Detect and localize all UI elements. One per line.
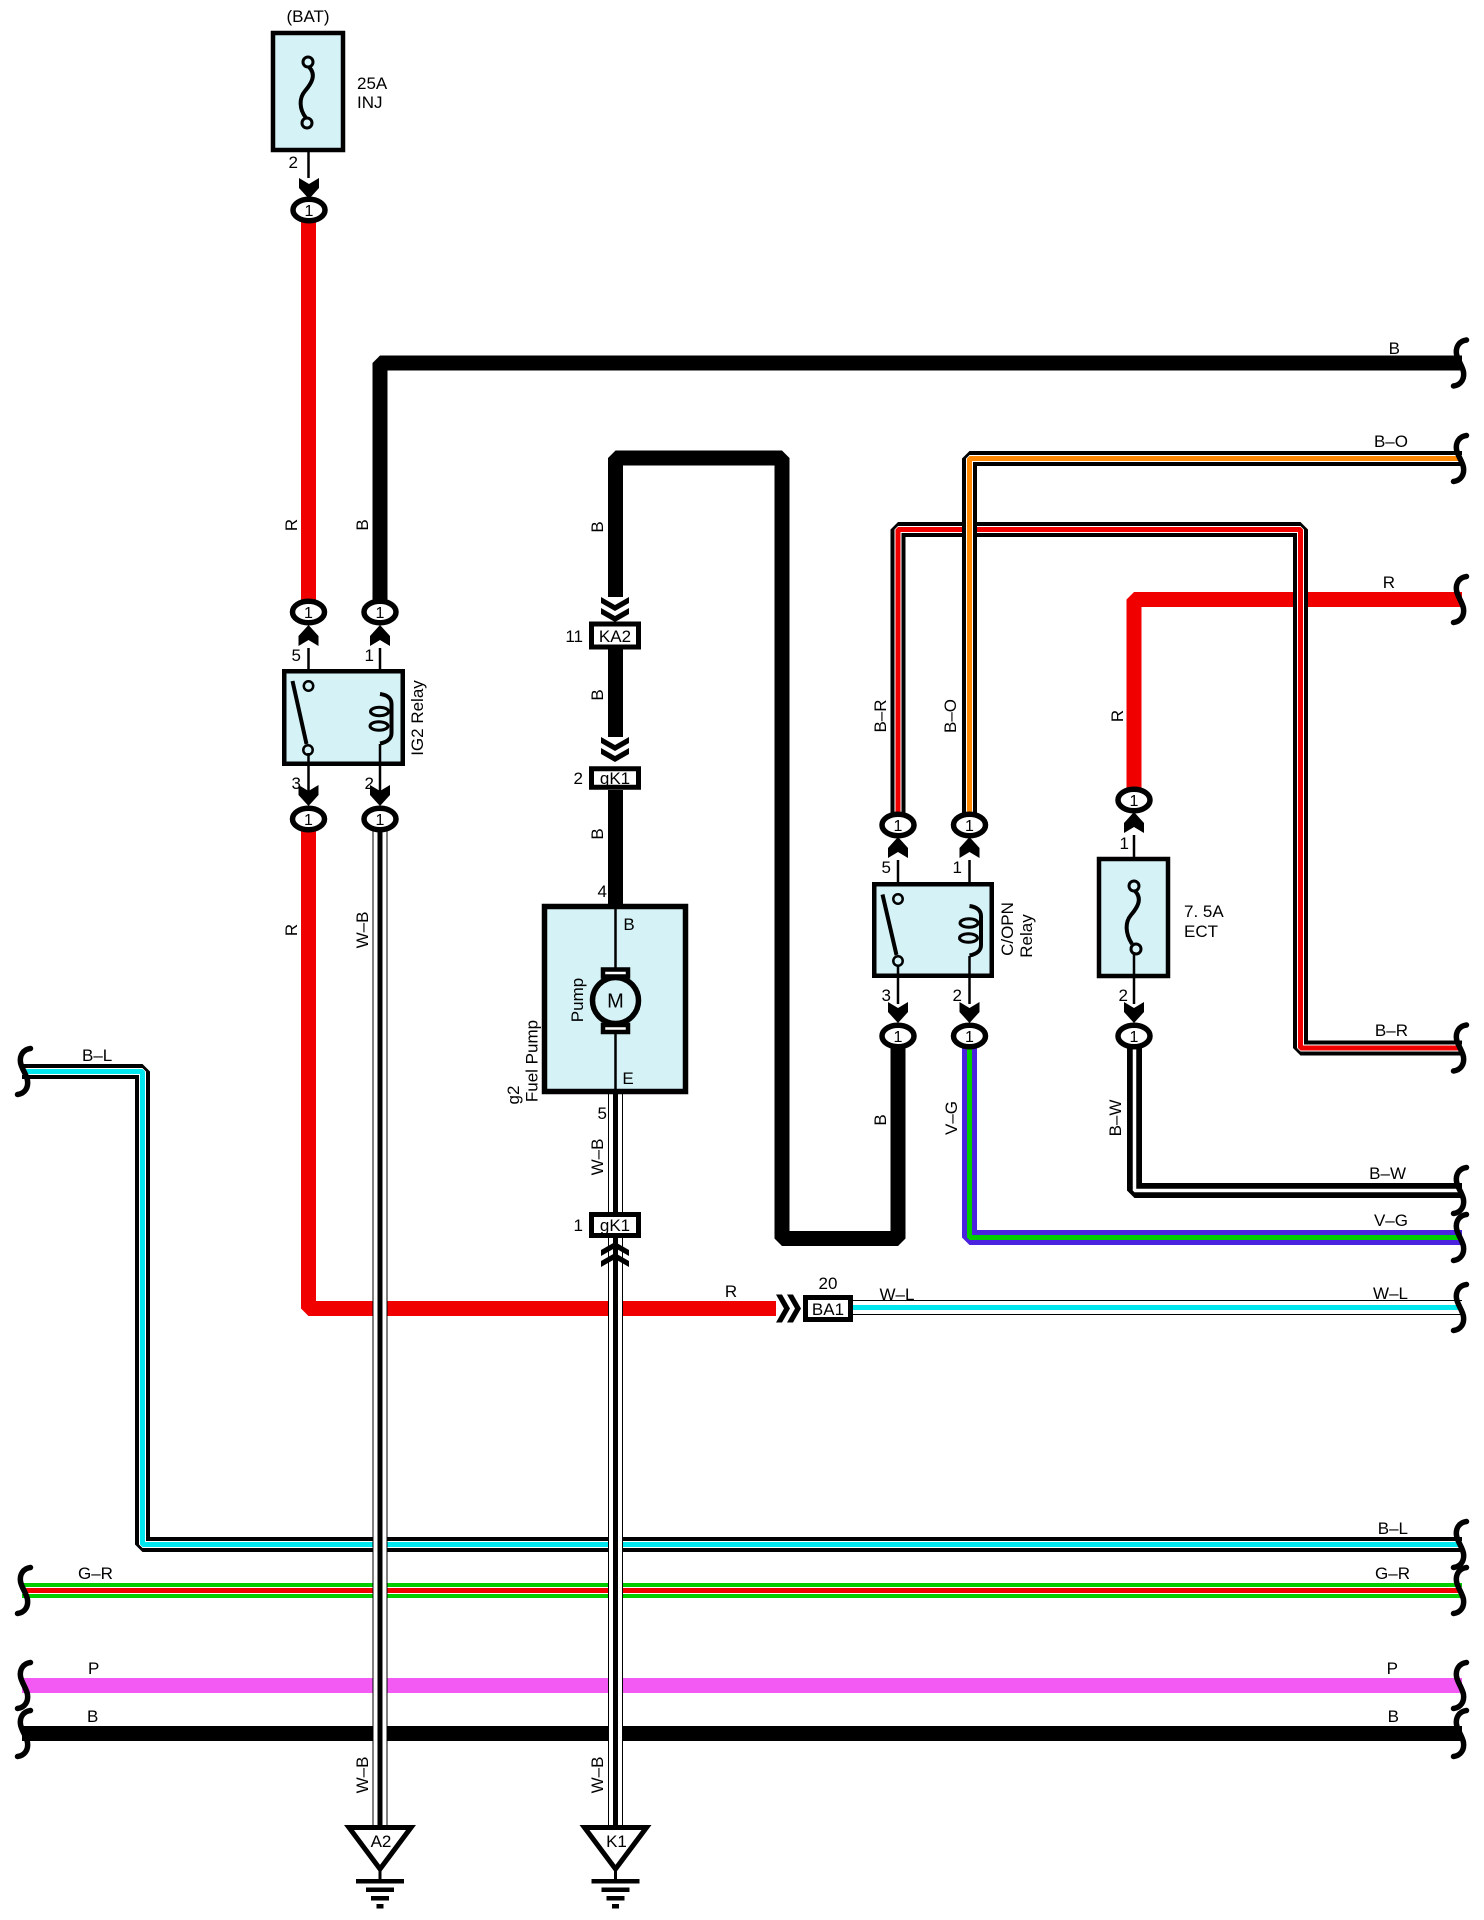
ECT pin1 stub <box>1120 834 1134 884</box>
brace right B-O <box>1454 436 1467 482</box>
svg-text:W–L: W–L <box>1373 1284 1408 1303</box>
brace right R <box>1454 577 1467 623</box>
brace right B bottom <box>1454 1711 1467 1757</box>
svg-text:B–O: B–O <box>1374 432 1408 451</box>
svg-text:B: B <box>87 1707 98 1726</box>
wire W-B pump <box>608 1094 623 1828</box>
svg-text:B–R: B–R <box>1375 1021 1408 1040</box>
svg-text:2: 2 <box>574 769 583 788</box>
IG2 pin5 stub <box>292 646 309 684</box>
svg-text:4: 4 <box>598 882 607 901</box>
connector gK1 pin 1 <box>574 1215 639 1236</box>
arrow down to connector IJ1 <box>299 178 319 199</box>
wire V-G <box>970 1048 1463 1238</box>
wire B bottom <box>22 1726 1462 1741</box>
connector 1 below fuse <box>293 199 325 221</box>
svg-text:BA1: BA1 <box>812 1300 844 1319</box>
svg-text:B: B <box>353 519 372 530</box>
C/OPN pin1 stub <box>953 858 970 908</box>
connector 1 ECT top <box>1118 789 1150 811</box>
svg-text:W–B: W–B <box>588 1139 607 1176</box>
arrow down from C/OPN pin3 <box>888 1002 908 1023</box>
svg-text:20: 20 <box>819 1274 838 1293</box>
IG2 pin2 stub <box>365 744 380 793</box>
fuse 25A INJ (BAT) <box>273 7 388 150</box>
svg-text:W–L: W–L <box>880 1285 915 1304</box>
svg-text:G–R: G–R <box>1375 1564 1410 1583</box>
svg-text:B: B <box>588 828 607 839</box>
svg-text:Relay: Relay <box>1017 914 1036 958</box>
svg-text:ECT: ECT <box>1184 922 1218 941</box>
fuel pump g2 <box>504 906 686 1104</box>
wire W-B left <box>373 825 388 1828</box>
svg-text:P: P <box>88 1659 99 1678</box>
svg-text:R: R <box>282 519 301 531</box>
svg-text:C/OPN: C/OPN <box>998 902 1017 956</box>
IG2 pin1 stub <box>365 646 380 696</box>
svg-text:G–R: G–R <box>78 1564 113 1583</box>
svg-text:25A: 25A <box>357 74 388 93</box>
brace right B <box>1454 340 1467 386</box>
brace right B-L <box>1454 1522 1467 1568</box>
svg-text:5: 5 <box>598 1104 607 1123</box>
svg-text:A2: A2 <box>371 1832 392 1851</box>
arrow down from IG2 pin3 <box>299 785 319 806</box>
wire B-R <box>898 530 1462 1049</box>
svg-text:1: 1 <box>953 858 962 877</box>
arrow up into ECT <box>1124 812 1144 833</box>
svg-text:B–L: B–L <box>82 1046 112 1065</box>
connector 1 IG2 pin5 top <box>293 601 325 623</box>
svg-text:B–O: B–O <box>941 699 960 733</box>
arrow up into IG2 pin1 <box>370 625 390 646</box>
svg-text:R: R <box>282 924 301 936</box>
svg-text:B–R: B–R <box>871 699 890 732</box>
brace left B-L <box>18 1049 31 1095</box>
svg-text:2: 2 <box>1119 986 1128 1005</box>
svg-text:K1: K1 <box>606 1832 627 1851</box>
svg-text:g2: g2 <box>504 1086 523 1105</box>
svg-text:B–L: B–L <box>1378 1519 1408 1538</box>
svg-text:Fuel Pump: Fuel Pump <box>523 1020 542 1102</box>
svg-text:B–W: B–W <box>1369 1164 1406 1183</box>
brace right W-L <box>1454 1285 1467 1331</box>
connector 1 IG2 pin3 bottom <box>293 808 325 830</box>
svg-text:W–B: W–B <box>588 1757 607 1794</box>
arrow up into C/OPN pin5 <box>888 837 908 858</box>
svg-text:3: 3 <box>882 986 891 1005</box>
svg-text:B: B <box>588 689 607 700</box>
wire P <box>22 1678 1462 1693</box>
wire B top horizontal <box>380 363 1462 601</box>
arrow double down into gK1 <box>601 737 629 762</box>
svg-text:B: B <box>623 915 634 934</box>
connector 1 C/OPN pin1 top <box>954 814 986 836</box>
wire G-R <box>22 1583 1462 1598</box>
svg-text:B: B <box>588 521 607 532</box>
fuse pin 2 stub <box>289 152 309 178</box>
svg-text:B–W: B–W <box>1106 1100 1125 1137</box>
arrow double down into KA2 <box>601 597 629 622</box>
connector 1 C/OPN pin3 bottom <box>882 1025 914 1047</box>
svg-text:1: 1 <box>1120 834 1129 853</box>
svg-text:11: 11 <box>565 627 583 646</box>
svg-text:E: E <box>622 1069 633 1088</box>
connector 1 C/OPN pin5 top <box>882 814 914 836</box>
connector KA2 pin 11 <box>565 624 638 647</box>
connector 1 C/OPN pin2 bottom <box>954 1025 986 1047</box>
arrow down from ECT pin2 <box>1124 1002 1144 1023</box>
svg-text:gK1: gK1 <box>600 1216 630 1235</box>
arrow double up below gK1 <box>601 1242 629 1267</box>
connector gK1 pin 2 <box>574 769 639 788</box>
svg-text:R: R <box>725 1282 737 1301</box>
brace left B bottom <box>18 1711 31 1757</box>
brace right B-R <box>1454 1025 1467 1071</box>
brace right V-G <box>1454 1215 1467 1261</box>
brace right P <box>1454 1663 1467 1709</box>
svg-text:1: 1 <box>365 646 374 665</box>
svg-text:W–B: W–B <box>353 1757 372 1794</box>
wire B-L <box>22 1072 1462 1545</box>
arrow up into C/OPN pin1 <box>960 837 980 858</box>
svg-text:R: R <box>1383 573 1395 592</box>
wire R relay to BA1 <box>309 825 777 1309</box>
svg-text:B: B <box>871 1114 890 1125</box>
ECT pin2 stub <box>1119 952 1134 1005</box>
svg-text:B: B <box>1389 339 1400 358</box>
connector 1 IG2 pin2 bottom <box>364 808 396 830</box>
svg-text:R: R <box>1108 710 1127 722</box>
svg-text:5: 5 <box>882 858 891 877</box>
C/OPN pin3 stub <box>882 965 898 1005</box>
C/OPN pin2 stub <box>953 956 970 1005</box>
arrow down from IG2 pin2 <box>370 785 390 806</box>
wire R fuse to relay <box>301 215 316 605</box>
svg-text:KA2: KA2 <box>599 627 631 646</box>
brace right G-R <box>1454 1568 1467 1614</box>
svg-text:2: 2 <box>953 986 962 1005</box>
ground A2 <box>349 1828 411 1909</box>
svg-text:gK1: gK1 <box>600 769 630 788</box>
arrow double right into BA1 <box>776 1295 801 1323</box>
wire B-O <box>970 459 1463 814</box>
IG2 pin3 stub <box>292 753 309 793</box>
svg-text:Pump: Pump <box>568 978 587 1022</box>
wire B middle loop <box>616 458 899 1239</box>
svg-text:IG2 Relay: IG2 Relay <box>408 680 427 756</box>
fuse 7.5A ECT <box>1099 859 1224 976</box>
arrow up into IG2 pin5 <box>299 625 319 646</box>
svg-text:P: P <box>1387 1659 1398 1678</box>
svg-text:B: B <box>1388 1707 1399 1726</box>
svg-text:2: 2 <box>289 153 298 172</box>
svg-text:1: 1 <box>574 1216 583 1235</box>
svg-text:M: M <box>607 991 624 1013</box>
wire W-L <box>853 1300 1462 1315</box>
relay IG2 <box>284 671 427 764</box>
connector 1 IG2 pin1 top <box>364 601 396 623</box>
brace right B-W <box>1454 1168 1467 1214</box>
brace left P <box>18 1663 31 1709</box>
svg-text:V–G: V–G <box>1374 1211 1408 1230</box>
wire B-W <box>1135 1048 1463 1191</box>
brace left G-R <box>18 1568 31 1614</box>
svg-text:V–G: V–G <box>942 1101 961 1135</box>
ground K1 <box>585 1828 647 1909</box>
connector 1 ECT bottom <box>1118 1025 1150 1047</box>
svg-text:5: 5 <box>292 646 301 665</box>
wire R to ECT <box>1134 600 1462 808</box>
connector BA1 pin 20 <box>806 1274 851 1320</box>
arrow down from C/OPN pin2 <box>960 1002 980 1023</box>
svg-text:W–B: W–B <box>353 912 372 949</box>
relay C/OPN <box>874 884 1036 976</box>
svg-text:INJ: INJ <box>357 93 383 112</box>
svg-text:7. 5A: 7. 5A <box>1184 902 1224 921</box>
svg-text:(BAT): (BAT) <box>286 7 329 26</box>
C/OPN pin5 stub <box>882 858 898 896</box>
